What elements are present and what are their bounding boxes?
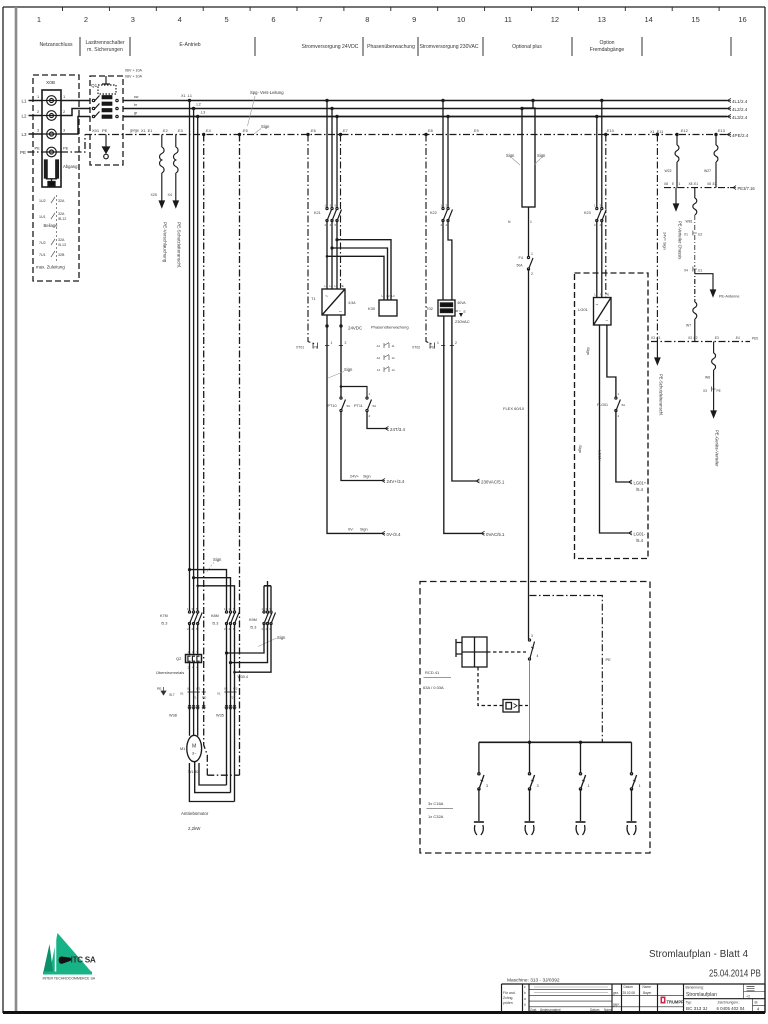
svg-text:a: a bbox=[524, 997, 526, 1001]
svg-text:4: 4 bbox=[757, 1007, 760, 1012]
distribution busbar bbox=[479, 741, 632, 743]
svg-text:M1: M1 bbox=[180, 747, 185, 751]
svg-text:Stromlaufplan: Stromlaufplan bbox=[686, 992, 717, 998]
bridge to PT11 bbox=[341, 387, 367, 398]
rotated note PE-Verteiler bbox=[678, 221, 683, 259]
svg-text:Datum: Datum bbox=[590, 1008, 600, 1012]
contactor K21 bbox=[326, 207, 342, 221]
terminal row X1 motor bbox=[188, 691, 206, 693]
svg-text:F4: F4 bbox=[519, 256, 523, 260]
svg-text:5A: 5A bbox=[347, 404, 351, 408]
terminal row XT01 bbox=[308, 135, 343, 349]
star point bar bbox=[264, 581, 271, 611]
svg-text:Abgang: Abgang bbox=[63, 164, 78, 169]
svg-text:.E7: .E7 bbox=[342, 129, 348, 133]
svg-text:32B: 32B bbox=[58, 253, 65, 257]
svg-text:Zust.: Zust. bbox=[530, 1008, 537, 1012]
PE reference /5.7 bbox=[157, 687, 175, 697]
connector X0 contact L2 bbox=[42, 111, 61, 121]
svg-text:L3: L3 bbox=[22, 132, 28, 137]
rotated note PE-Verschlauchung bbox=[163, 222, 168, 263]
svg-text:3: 3 bbox=[531, 634, 533, 638]
svg-text:4: 4 bbox=[178, 15, 182, 24]
svg-text:0V-/3.4: 0V-/3.4 bbox=[387, 532, 401, 537]
column ticks top bbox=[63, 7, 720, 11]
svg-text:15: 15 bbox=[691, 15, 699, 24]
contactor K8M bbox=[225, 611, 239, 625]
svg-text:W27: W27 bbox=[704, 169, 711, 173]
svg-text:4: 4 bbox=[446, 223, 448, 227]
svg-text:–: – bbox=[606, 318, 609, 323]
svg-text:N: N bbox=[600, 293, 602, 297]
svg-text:3~: 3~ bbox=[192, 751, 197, 756]
terminal row XT02 bbox=[426, 135, 454, 349]
svg-text:Datum: Datum bbox=[624, 985, 634, 989]
svg-text:.E2: .E2 bbox=[698, 233, 703, 237]
svg-text:PE: PE bbox=[606, 293, 610, 297]
junction dots 24VDC bbox=[325, 324, 342, 327]
svg-text:/5.4: /5.4 bbox=[636, 487, 644, 492]
svg-text:L3: L3 bbox=[392, 294, 396, 298]
svg-text:11: 11 bbox=[504, 15, 512, 24]
wire LG01 out plus bbox=[607, 325, 616, 397]
wire K30 feed 3 bbox=[327, 256, 384, 300]
svg-text:24T/3.4: 24T/3.4 bbox=[390, 427, 405, 432]
contactor K23 bbox=[596, 207, 607, 221]
svg-text:Q2: Q2 bbox=[176, 656, 182, 661]
svg-text:Spg- Vers-Leitung: Spg- Vers-Leitung bbox=[250, 90, 284, 95]
PE earth inside Q1 bbox=[103, 135, 110, 159]
surge relay block bbox=[503, 700, 519, 713]
svg-text:Bayer: Bayer bbox=[643, 991, 652, 995]
svg-text:63A / 0.03A: 63A / 0.03A bbox=[423, 685, 444, 690]
PE terminal arrow lower right bbox=[711, 370, 716, 417]
svg-text:FLEX 60/10: FLEX 60/10 bbox=[503, 406, 525, 411]
svg-text:60VA: 60VA bbox=[458, 301, 467, 305]
wire delta loop verticals bbox=[227, 624, 235, 802]
wire K21 to T1 bbox=[327, 221, 337, 290]
PE drop W22 squiggle bbox=[675, 135, 679, 188]
T02 PE stub bbox=[455, 311, 463, 317]
reference PE3/7.16 bbox=[733, 186, 755, 191]
svg-text:Änderungstext: Änderungstext bbox=[540, 1008, 561, 1012]
breaker outlet 3 bbox=[576, 742, 586, 835]
motor name label bbox=[181, 811, 209, 831]
svg-text:1: 1 bbox=[37, 94, 40, 99]
wire T1 feed L2 bbox=[331, 109, 333, 208]
wire motor feed L1 vertical bbox=[189, 101, 191, 612]
bus tap labels X1 bbox=[181, 94, 205, 115]
title block table bbox=[502, 984, 766, 1012]
svg-text:Maschine: 313 - 3J/0392: Maschine: 313 - 3J/0392 bbox=[507, 978, 560, 984]
svg-text:L2: L2 bbox=[387, 294, 391, 298]
svg-text:Lasttrennschalter: Lasttrennschalter bbox=[85, 40, 124, 46]
svg-text:PE: PE bbox=[717, 389, 721, 393]
svg-text:Beilage: Beilage bbox=[44, 223, 59, 228]
svg-text:Q1: Q1 bbox=[91, 83, 98, 88]
svg-text:Sign: Sign bbox=[578, 445, 583, 453]
svg-text:Bl.: Bl. bbox=[755, 1001, 759, 1005]
svg-text:4: 4 bbox=[537, 654, 539, 658]
svg-text:8: 8 bbox=[365, 15, 369, 24]
svg-text:230VAC/5.1: 230VAC/5.1 bbox=[481, 480, 505, 485]
svg-text:2: 2 bbox=[224, 627, 226, 631]
wire PE link motor bbox=[207, 774, 239, 776]
svg-text:prüfen: prüfen bbox=[503, 1001, 513, 1005]
svg-text:X3 .E2: X3 .E2 bbox=[688, 336, 698, 340]
PE terminal arrow lower left bbox=[655, 342, 660, 365]
svg-text:X25: X25 bbox=[151, 193, 157, 197]
terminal X1 .E2 bbox=[693, 215, 697, 236]
wire delta branch tap 1 bbox=[190, 570, 227, 611]
svg-text:PE: PE bbox=[35, 146, 41, 151]
connector X0 contact L3 bbox=[42, 129, 61, 139]
wire filter to F4 bbox=[528, 207, 530, 257]
svg-text:1: 1 bbox=[187, 607, 189, 611]
wire K30 feed 1 bbox=[337, 240, 391, 300]
K30 output contacts bbox=[384, 343, 389, 373]
optional module dashed enclosure bbox=[575, 273, 649, 559]
svg-text:5A: 5A bbox=[373, 404, 377, 408]
PE drop X26 with flex squiggle bbox=[173, 135, 178, 208]
svg-text:6: 6 bbox=[271, 15, 275, 24]
wire LG01 PE dash-dot bbox=[605, 135, 607, 298]
main switch in RCD box bbox=[528, 639, 534, 660]
wire T1 PE dash-dot bbox=[340, 135, 342, 289]
svg-text:K30: K30 bbox=[368, 306, 376, 311]
svg-text:T02: T02 bbox=[426, 306, 434, 311]
wire F4 to RCD box bbox=[528, 269, 530, 639]
svg-text:2: 2 bbox=[187, 627, 189, 631]
svg-text:Name: Name bbox=[643, 985, 652, 989]
svg-text:11: 11 bbox=[392, 344, 395, 348]
reference LG01- /5.4 bbox=[629, 531, 646, 543]
svg-text:.E4: .E4 bbox=[735, 336, 740, 340]
svg-text:1U2: 1U2 bbox=[39, 199, 46, 203]
svg-text:X8: X8 bbox=[664, 182, 668, 186]
svg-text:L3: L3 bbox=[335, 284, 339, 288]
RCD block bbox=[456, 637, 487, 667]
connector X0 annotation fuses bbox=[51, 195, 57, 263]
bus end reference 4PE/2.4 bbox=[727, 133, 749, 139]
svg-text:PE-Schutzleiteranschl.: PE-Schutzleiteranschl. bbox=[659, 374, 664, 416]
leader note Sign star bbox=[258, 635, 286, 647]
wire K9M to loop 3 bbox=[235, 624, 272, 673]
svg-text:K22: K22 bbox=[430, 211, 437, 215]
svg-text:08V + 10A: 08V + 10A bbox=[125, 75, 142, 79]
svg-text:3: 3 bbox=[63, 128, 66, 133]
svg-text:Stromversorgung 230VAC: Stromversorgung 230VAC bbox=[419, 44, 478, 50]
svg-text:PE: PE bbox=[20, 150, 26, 155]
svg-text:A2: A2 bbox=[377, 356, 381, 360]
svg-text:4L3/2.4: 4L3/2.4 bbox=[732, 115, 748, 120]
leader note Sign motor bbox=[206, 557, 222, 573]
svg-text:.E9: .E9 bbox=[473, 129, 479, 133]
column numbers 1-16 bbox=[37, 15, 747, 24]
wire K22 to T02 bbox=[442, 221, 444, 301]
reference 24V+/3.4 bbox=[382, 479, 405, 485]
PE drop W27 squiggle bbox=[714, 135, 718, 188]
svg-text:E-Antrieb: E-Antrieb bbox=[179, 42, 200, 48]
svg-text:2: 2 bbox=[63, 109, 66, 114]
frame left thick gray bar bbox=[15, 7, 18, 1011]
svg-text:10: 10 bbox=[457, 15, 465, 24]
reference 0VAC/5.1 bbox=[481, 531, 505, 537]
wire K7M to Q2 bbox=[190, 624, 198, 655]
svg-text:W6: W6 bbox=[705, 376, 710, 380]
breaker outlet 4 bbox=[627, 742, 637, 835]
wire PE drop to motor loop bbox=[239, 135, 241, 776]
switch-fuse Q1 contacts bbox=[92, 96, 118, 118]
svg-text:/5.4: /5.4 bbox=[636, 538, 644, 543]
svg-text:/5.3: /5.3 bbox=[161, 622, 167, 626]
svg-text:W7: W7 bbox=[686, 324, 691, 328]
svg-text:6 0405 402 04: 6 0405 402 04 bbox=[717, 1006, 746, 1011]
svg-text:PE3/7.16: PE3/7.16 bbox=[738, 186, 756, 191]
svg-text:1x C32A: 1x C32A bbox=[428, 814, 444, 819]
frame bottom thick line bbox=[3, 1011, 765, 1014]
svg-text:PE: PE bbox=[314, 346, 319, 350]
svg-text:/5.3: /5.3 bbox=[212, 622, 218, 626]
svg-text:.E13: .E13 bbox=[717, 129, 725, 133]
wire L1 entry bbox=[29, 100, 43, 102]
svg-text:1: 1 bbox=[63, 94, 66, 99]
svg-text:3x C16A: 3x C16A bbox=[428, 801, 444, 806]
overload relay Q2 bbox=[186, 655, 202, 663]
PE chain to lower bus bbox=[693, 269, 697, 342]
wire K30 feed 2 bbox=[332, 248, 388, 300]
svg-text:14: 14 bbox=[392, 368, 396, 372]
svg-text:L1: L1 bbox=[22, 99, 28, 104]
svg-text:X4: X4 bbox=[168, 193, 172, 197]
title block revision lines bbox=[534, 987, 608, 993]
drawing title bbox=[649, 949, 749, 960]
wire T02 feed L1 bbox=[442, 101, 444, 208]
svg-text:L1: L1 bbox=[595, 293, 599, 297]
wire T1 feed L1 bbox=[326, 101, 328, 208]
svg-text:E: E bbox=[464, 310, 467, 314]
svg-text:7: 7 bbox=[318, 15, 322, 24]
svg-text:.E4: .E4 bbox=[205, 129, 211, 133]
bus L2 bbox=[123, 108, 727, 110]
wire motor feed L3 vertical bbox=[197, 117, 199, 612]
svg-text:1: 1 bbox=[679, 182, 681, 186]
wire L2 entry bbox=[29, 115, 43, 117]
wire T02 out 0VAC bbox=[444, 316, 481, 533]
svg-text:M: M bbox=[192, 744, 196, 750]
svg-text:Sign: Sign bbox=[537, 153, 546, 158]
svg-text:Phasenüberwachung: Phasenüberwachung bbox=[367, 44, 415, 50]
svg-text:5A: 5A bbox=[622, 403, 626, 407]
svg-text:.E5: .E5 bbox=[242, 129, 248, 133]
svg-text:FLG01: FLG01 bbox=[597, 403, 608, 407]
svg-text:LG01: LG01 bbox=[578, 307, 589, 312]
drawing date stamp bbox=[709, 968, 761, 979]
svg-text:.L2: .L2 bbox=[196, 103, 201, 107]
svg-text:1: 1 bbox=[618, 392, 620, 396]
svg-text:X3 .E1: X3 .E1 bbox=[651, 336, 661, 340]
switch-fuse Q1 fuse bars bbox=[102, 96, 112, 119]
svg-text:W1.30: W1.30 bbox=[188, 770, 198, 774]
bus wire color labels bbox=[130, 95, 139, 133]
svg-text:L2: L2 bbox=[330, 284, 334, 288]
svg-text:Stromlaufplan - Blatt 4: Stromlaufplan - Blatt 4 bbox=[649, 949, 749, 960]
svg-text:A1: A1 bbox=[377, 344, 381, 348]
node PE entry bbox=[20, 150, 26, 155]
rotated note 24V sign bbox=[663, 232, 667, 250]
svg-text:br: br bbox=[134, 103, 138, 107]
svg-text:~: ~ bbox=[325, 294, 328, 300]
leader note Sign PE bbox=[254, 124, 270, 134]
wire T1 feed L3 bbox=[336, 117, 338, 208]
wire T02 out 230VAC bbox=[452, 316, 476, 481]
power supply T1 bbox=[322, 289, 345, 315]
svg-text:1: 1 bbox=[262, 607, 264, 611]
leader note Spg-Versorgung bbox=[248, 90, 285, 126]
rotated note optional c bbox=[578, 445, 583, 453]
svg-text:X0B: X0B bbox=[46, 80, 55, 86]
svg-text:X1 .E1: X1 .E1 bbox=[141, 129, 152, 133]
svg-text:2: 2 bbox=[262, 627, 264, 631]
wire delta loop bottoms bbox=[189, 762, 234, 802]
svg-text:Sign: Sign bbox=[344, 367, 353, 372]
svg-text:Benennung:: Benennung: bbox=[686, 986, 704, 990]
svg-text:Sign: Sign bbox=[213, 557, 222, 562]
svg-text:.E12: .E12 bbox=[680, 129, 688, 133]
svg-text:W35: W35 bbox=[216, 714, 224, 718]
svg-text:PE: PE bbox=[340, 284, 344, 288]
terminal X3 PE bbox=[712, 387, 716, 392]
svg-text:24V+: 24V+ bbox=[350, 475, 360, 479]
svg-text:PT11: PT11 bbox=[354, 404, 363, 408]
svg-text:Antriebsmotor: Antriebsmotor bbox=[181, 811, 209, 816]
junction dots motor feed taps bbox=[188, 99, 241, 136]
contactor K23 taps bbox=[595, 99, 607, 136]
svg-text:ITC SA: ITC SA bbox=[71, 956, 96, 965]
svg-text:2: 2 bbox=[345, 341, 347, 345]
svg-text:1: 1 bbox=[441, 204, 443, 208]
svg-text:PE-Geräte-Verteiler: PE-Geräte-Verteiler bbox=[715, 430, 720, 467]
PE drop X25 with flex squiggle bbox=[159, 135, 164, 208]
svg-text:Netzanschluss: Netzanschluss bbox=[39, 42, 73, 48]
PE bus terminal labels bbox=[141, 129, 725, 134]
svg-text:/5.3: /5.3 bbox=[250, 626, 256, 630]
svg-text:1: 1 bbox=[594, 204, 596, 208]
machine note bbox=[507, 978, 560, 984]
svg-text:25.04.2014 PB: 25.04.2014 PB bbox=[709, 968, 761, 979]
svg-text:X8 .E2: X8 .E2 bbox=[707, 182, 717, 186]
wire K9M to loop 2 bbox=[231, 624, 268, 663]
fuse FLG01 bbox=[615, 397, 621, 412]
wire motor PE dash-dot bbox=[204, 135, 208, 776]
svg-text:06V + 10A: 06V + 10A bbox=[125, 69, 142, 73]
PE drop W6 lower bbox=[712, 342, 716, 370]
svg-text:5: 5 bbox=[225, 15, 229, 24]
svg-text:3: 3 bbox=[330, 204, 332, 208]
manufacturer mark bbox=[661, 997, 685, 1005]
PE tee inside RCD box bbox=[530, 596, 603, 743]
company logo ITC SA bbox=[43, 933, 96, 981]
svg-text:–: – bbox=[339, 309, 342, 315]
wire T02 feed L3 bbox=[447, 117, 449, 208]
rotated note PE-Schutzleiteranschluss bbox=[177, 222, 182, 268]
PE sub-bus X8 bbox=[664, 187, 730, 189]
svg-text:Zeichnungsnr.:: Zeichnungsnr.: bbox=[718, 1001, 740, 1005]
PE branch antenna bbox=[695, 274, 713, 290]
svg-text:Stromversorgung 24VDC: Stromversorgung 24VDC bbox=[302, 44, 359, 50]
svg-text:Phasenüberwachung: Phasenüberwachung bbox=[371, 325, 409, 330]
svg-text:1: 1 bbox=[37, 15, 41, 24]
svg-text:L1: L1 bbox=[382, 294, 386, 298]
svg-text:gn/ge: gn/ge bbox=[130, 129, 139, 133]
svg-text:gepr.: gepr. bbox=[613, 1003, 620, 1007]
rotated note PE-Geraete bbox=[715, 430, 720, 467]
leader note Sign filter right bbox=[534, 153, 546, 165]
svg-text:2: 2 bbox=[325, 223, 327, 227]
wire LG01 feed a bbox=[596, 117, 598, 208]
terminal X4 .E1 bbox=[693, 235, 697, 272]
svg-text:Zchng.: Zchng. bbox=[503, 996, 513, 1000]
section divider ticks bbox=[80, 37, 731, 56]
svg-text:2,2kW: 2,2kW bbox=[188, 826, 201, 831]
breaker outlet 1 bbox=[474, 742, 484, 835]
contactor K9M star bbox=[263, 611, 276, 625]
svg-text:1: 1 bbox=[224, 607, 226, 611]
bus end reference 4L3/2.4 bbox=[727, 115, 748, 121]
svg-text:1U1: 1U1 bbox=[39, 215, 46, 219]
svg-text:Sign: Sign bbox=[506, 153, 515, 158]
svg-text:1: 1 bbox=[639, 784, 641, 788]
svg-text:LG01+: LG01+ bbox=[634, 481, 647, 486]
wire LG01 out minus bbox=[600, 325, 629, 533]
svg-text:0: 0 bbox=[524, 1003, 526, 1007]
junction dots K30 taps bbox=[326, 238, 339, 257]
svg-text:X4: X4 bbox=[684, 269, 688, 273]
filter element tall rect bbox=[520, 99, 534, 110]
wire L2 X0 to Q1 bbox=[61, 109, 90, 116]
node L2 entry bbox=[22, 114, 28, 119]
breaker outlet 2 bbox=[525, 742, 535, 835]
wire Q2 to motor bbox=[190, 663, 198, 736]
svg-text:X1: X1 bbox=[180, 692, 184, 696]
svg-text:2: 2 bbox=[531, 272, 533, 276]
svg-text:2: 2 bbox=[594, 223, 596, 227]
svg-text:/5.7: /5.7 bbox=[169, 693, 175, 697]
svg-text:PE-Verschlauchung: PE-Verschlauchung bbox=[163, 222, 168, 263]
connector X0 body bbox=[42, 90, 61, 187]
svg-text:PE5: PE5 bbox=[752, 337, 758, 341]
svg-text:1: 1 bbox=[588, 784, 590, 788]
wire T1 out 24V bbox=[340, 315, 342, 397]
svg-text:K7M: K7M bbox=[160, 614, 168, 618]
junction dots T02 taps bbox=[424, 99, 449, 136]
svg-text:/5.13: /5.13 bbox=[58, 243, 66, 247]
svg-text:1: 1 bbox=[331, 341, 333, 345]
svg-text:PE: PE bbox=[606, 657, 612, 662]
svg-text:12: 12 bbox=[392, 356, 396, 360]
svg-text:14: 14 bbox=[645, 15, 653, 24]
switch-fuse Q1 enclosure bbox=[90, 76, 123, 165]
svg-text:24V= Sign: 24V= Sign bbox=[663, 232, 667, 250]
leader note Sign filter left bbox=[506, 153, 520, 165]
svg-text:X1 .L1: X1 .L1 bbox=[181, 94, 192, 98]
right PE column long dash-dot bbox=[656, 133, 718, 136]
reference 230VAC/5.1 bbox=[476, 479, 505, 485]
title block texts bbox=[503, 985, 652, 1012]
node L1 entry bbox=[22, 99, 28, 104]
svg-text:3: 3 bbox=[446, 204, 448, 208]
wire L3 entry bbox=[29, 133, 43, 135]
